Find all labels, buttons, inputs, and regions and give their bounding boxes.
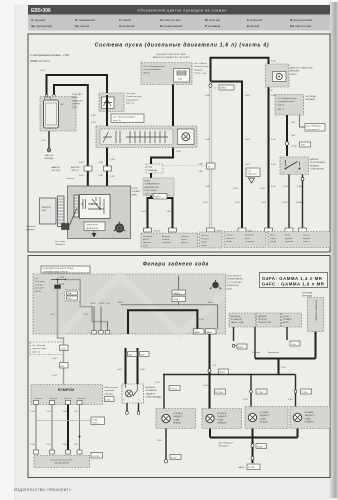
bus wire — [51, 279, 80, 281]
svg-text:0,5Ч: 0,5Ч — [245, 95, 250, 97]
svg-text:1,0Б: 1,0Б — [297, 186, 302, 188]
svg-text:0,5Ч: 0,5Ч — [202, 73, 207, 75]
svg-text:БЛОК РЕЛЕ И: БЛОК РЕЛЕ И — [227, 276, 242, 278]
svg-text:0,3Ч: 0,3Ч — [235, 202, 240, 204]
svg-text:АКПП: АКПП — [283, 321, 289, 324]
svg-text:В 77Б: В 77Б — [249, 467, 255, 469]
svg-text:0,5Ч: 0,5Ч — [157, 440, 162, 442]
lamp L3 label — [260, 411, 270, 424]
lamp3 ground wire — [252, 429, 254, 438]
stub wire B — [254, 327, 256, 359]
svg-text:И РЕЛЕ: И РЕЛЕ — [72, 104, 81, 106]
branch wire A — [93, 307, 95, 331]
immobilizer code note dashed — [146, 164, 163, 173]
diagram frame 2: reverse lamps — [28, 256, 330, 478]
lamp L1 — [162, 414, 170, 422]
connector EM61 — [209, 84, 212, 88]
lamp L4 — [293, 413, 301, 421]
svg-text:0,5Ч: 0,5Ч — [245, 139, 250, 141]
svg-text:ОБМЕНА: ОБМЕНА — [148, 169, 158, 172]
connector E46 label — [291, 142, 311, 148]
svg-text:блокир.: блокир. — [162, 239, 170, 241]
svg-text:0,5Ч: 0,5Ч — [176, 151, 181, 153]
engine variant note frame — [260, 273, 328, 288]
ECM note right — [105, 387, 119, 395]
svg-text:АКПП: АКПП — [143, 238, 149, 241]
svg-text:О оранжевый: О оранжевый — [75, 18, 95, 22]
svg-text:ДВИГАТЕЛЬ: ДВИГАТЕЛЬ — [86, 227, 99, 230]
svg-text:0,3Ч: 0,3Ч — [99, 162, 104, 164]
svg-text:ПОЛОЖ.: ПОЛОЖ. — [258, 319, 267, 321]
svg-text:НАВЕСН.: НАВЕСН. — [51, 166, 61, 169]
svg-text:0,3Ч: 0,3Ч — [79, 175, 84, 177]
clutch pedal switch symbol — [283, 160, 301, 174]
svg-text:Т 206: Т 206 — [302, 392, 308, 394]
svg-text:ФОНАРЬ: ФОНАРЬ — [217, 412, 227, 415]
svg-text:ТСМ: ТСМ — [93, 419, 98, 421]
underhood fuse box label — [72, 93, 83, 109]
clutch switch label — [310, 158, 325, 171]
svg-text:2,0Ч: 2,0Ч — [271, 95, 276, 97]
svg-text:Разъем: Разъем — [67, 178, 75, 180]
svg-text:З зеленый: З зеленый — [119, 24, 135, 28]
connector E46 — [286, 142, 289, 146]
starter relay inside ECU — [80, 195, 111, 219]
key reminder box on white wire — [198, 163, 215, 173]
svg-text:0,3П: 0,3П — [110, 176, 115, 178]
connector detail dashed box 3 — [224, 232, 266, 248]
svg-text:0,5Б: 0,5Б — [205, 95, 210, 97]
svg-text:Б белый: Б белый — [247, 24, 260, 28]
svg-text:ДИАГНОСТИЧЕСКИЙ: ДИАГНОСТИЧЕСКИЙ — [290, 67, 313, 70]
connector detail dashed box 4 — [268, 232, 330, 248]
MT wire top connectors — [128, 352, 150, 357]
relay block K1 dashed enclosure upper — [99, 93, 124, 112]
svg-text:РАЗЪЕМ: РАЗЪЕМ — [290, 70, 299, 73]
reverse lamp right hatch dashed box — [202, 409, 242, 429]
lamp1 ground wire — [165, 429, 167, 460]
connector EM61 label — [214, 85, 234, 90]
svg-text:ПЕДАЛИ: ПЕДАЛИ — [310, 164, 319, 167]
main fuse box dashed enclosure — [141, 63, 192, 85]
ECM feed wire — [58, 334, 64, 385]
svg-text:ЗВ1-О: ЗВ1-О — [278, 109, 285, 111]
left reference dashed box — [30, 342, 64, 355]
svg-text:0,4П: 0,4П — [50, 314, 55, 316]
svg-text:Т 106: Т 106 — [257, 392, 263, 394]
connector B148 — [251, 444, 266, 449]
svg-text:ЛЯТОР: ЛЯТОР — [71, 170, 79, 172]
svg-text:коробкой: коробкой — [105, 389, 115, 392]
svg-text:(диапаз.: (диапаз. — [143, 242, 152, 244]
wire labels 0,3Ч — [79, 162, 104, 177]
svg-text:Сигнал: Сигнал — [181, 236, 189, 238]
svg-text:ЗАРЯДКИ: ЗАРЯДКИ — [305, 98, 316, 101]
svg-text:Ж желтый: Ж желтый — [204, 18, 220, 22]
svg-text:Автоматич.: Автоматич. — [268, 351, 280, 354]
svg-text:К красный: К красный — [247, 18, 262, 22]
MT bottom connector 1 — [126, 411, 129, 414]
svg-text:(лист 3): (лист 3) — [113, 120, 121, 122]
svg-text:0,5Ч: 0,5Ч — [40, 70, 45, 72]
svg-text:замка: замка — [201, 242, 208, 244]
wire starter solenoid S — [54, 85, 88, 195]
svg-text:1,0Ч: 1,0Ч — [41, 140, 46, 142]
connector AA05 — [194, 329, 205, 334]
svg-text:Сигнал2: Сигнал2 — [77, 398, 86, 400]
svg-text:ХОДА: ХОДА — [173, 418, 180, 421]
lamp1 feed connector box — [155, 382, 180, 391]
transmission dashed box — [308, 298, 324, 332]
svg-text:ЗАДНЕГО: ЗАДНЕГО — [173, 415, 183, 418]
svg-text:2,0Ч: 2,0Ч — [271, 186, 276, 188]
svg-text:электропит.»: электропит.» — [307, 129, 321, 131]
svg-text:Блок: Блок — [285, 235, 290, 237]
power reference box — [305, 124, 325, 132]
svg-text:1,0Ч: 1,0Ч — [283, 186, 288, 188]
svg-text:См. «Распределение: См. «Распределение — [144, 66, 166, 68]
connector strip X2 — [74, 195, 79, 217]
svg-text:«Распред.: «Распред. — [35, 281, 46, 283]
svg-text:С202: С202 — [61, 348, 67, 350]
svg-text:0,3О: 0,3О — [47, 411, 52, 413]
svg-text:КОД: КОД — [148, 167, 153, 169]
transmission stub wire — [315, 332, 317, 359]
underhood label box — [41, 266, 90, 273]
charging system note — [305, 95, 316, 101]
svg-text:ФОНАРЬ: ФОНАРЬ — [260, 411, 270, 414]
node L2 — [209, 374, 211, 376]
power note — [35, 278, 46, 293]
svg-text:Соед.: Соед. — [291, 146, 297, 148]
svg-text:БЛОК: БЛОК — [145, 181, 152, 183]
reverse lamp left hatch dashed box — [156, 409, 196, 429]
svg-text:0,3П: 0,3П — [91, 122, 96, 124]
svg-text:0,5Ч: 0,5Ч — [260, 188, 265, 190]
svg-text:ФОНАРЬ: ФОНАРЬ — [305, 411, 315, 414]
svg-text:0,5Ч: 0,5Ч — [117, 369, 122, 371]
svg-text:Кч коричневый: Кч коричневый — [160, 24, 183, 28]
svg-text:0,5Ч: 0,5Ч — [281, 367, 286, 369]
speed sensor dashed enclosure — [34, 456, 90, 468]
fusible link stack — [172, 276, 186, 305]
connector detail dashed box 2 — [199, 232, 222, 248]
svg-text:Ф фиолетовый: Ф фиолетовый — [290, 18, 312, 22]
svg-text:УПРАВЛ.: УПРАВЛ. — [283, 318, 293, 321]
lamp3 feed wire — [250, 375, 252, 407]
svg-text:(лист 2): (лист 2) — [126, 103, 134, 105]
svg-text:G4FA: GAMMA 1,4 л MR: G4FA: GAMMA 1,4 л MR — [262, 276, 323, 281]
node L1 — [163, 374, 165, 376]
svg-text:заднего хода»: заднего хода» — [32, 348, 47, 350]
ECM output wire 2 — [51, 405, 53, 451]
svg-text:педали: педали — [303, 238, 311, 240]
wire branch to EM connector — [211, 82, 243, 229]
svg-text:0,5Ч: 0,5Ч — [288, 399, 293, 401]
junction node — [79, 436, 81, 438]
svg-text:(СМ.): (СМ.) — [72, 107, 78, 109]
connector C07 — [91, 453, 103, 459]
svg-text:питания»: питания» — [35, 288, 45, 290]
svg-text:ЗАЩИТА: ЗАЩИТА — [42, 206, 52, 209]
svg-text:Ч черный: Ч черный — [31, 18, 45, 22]
pin row labels — [153, 231, 253, 233]
wire labels right columns — [203, 188, 303, 204]
svg-text:В148: В148 — [257, 447, 263, 449]
wire clutch switch pin1 — [302, 175, 304, 229]
node S terminal — [53, 94, 56, 97]
pin row connectors — [144, 228, 307, 232]
svg-text:БЛОК: БЛОК — [283, 316, 290, 318]
gearbox note small — [302, 292, 313, 298]
diagram frame 1: starting system — [28, 34, 330, 252]
connector C115 — [105, 397, 115, 402]
svg-text:ВЫКЛЮЧ.: ВЫКЛЮЧ. — [146, 387, 157, 389]
sensor pin row — [34, 450, 83, 454]
svg-text:зажиг.: зажиг. — [201, 245, 207, 247]
svg-text:Сз светло-зел.: Сз светло-зел. — [160, 18, 182, 22]
wire clutch switch pin2 — [288, 175, 290, 229]
svg-text:и реле: и реле — [194, 73, 201, 75]
svg-text:ДАТЧИК: ДАТЧИК — [310, 158, 319, 161]
svg-text:0,5Ч: 0,5Ч — [243, 399, 248, 401]
svg-text:ЦАПФ: ЦАПФ — [238, 466, 245, 469]
svg-text:0,3Ч: 0,3Ч — [203, 202, 208, 204]
wire to clutch switch — [286, 115, 288, 156]
starter motor body — [44, 97, 59, 128]
wire down from junction — [217, 305, 219, 329]
starter relay body — [100, 129, 173, 145]
svg-text:ПОД КАПОТОМ: БЛОК СЛЕВ.: ПОД КАПОТОМ: БЛОК СЛЕВ. — [156, 53, 187, 56]
diagonal contact — [70, 208, 78, 225]
svg-text:СИСТЕМА: СИСТЕМА — [305, 95, 316, 98]
svg-text:(вход): (вход) — [270, 241, 276, 243]
svg-text:ЕМ61: ЕМ61 — [221, 88, 227, 90]
svg-text:Питание: Питание — [245, 235, 254, 237]
svg-text:ЛЕВЫЙ: ЛЕВЫЙ — [173, 422, 181, 425]
svg-text:стартера: стартера — [245, 241, 255, 243]
variant labels — [252, 351, 280, 354]
svg-text:сцепл.: сцепл. — [270, 238, 277, 240]
fuse holder box — [40, 198, 57, 224]
svg-text:ХОДА: ХОДА — [305, 417, 312, 420]
ground connector B77 — [238, 456, 260, 469]
lamp1 ground label box — [157, 440, 181, 460]
inhibitor switch dashed box C — [282, 313, 302, 327]
lamp L2 label — [217, 412, 227, 425]
svg-text:0,3Ч: 0,3Ч — [79, 162, 84, 164]
lamp4 ground wire — [297, 429, 299, 438]
ground bus wire — [210, 437, 298, 439]
ground reference box MD-2 — [246, 168, 260, 183]
svg-text:реле: реле — [245, 238, 251, 240]
svg-text:0,3О: 0,3О — [47, 444, 52, 446]
node J1 — [57, 279, 59, 281]
svg-text:Сигнал: Сигнал — [201, 235, 209, 237]
lamp2 ground wire — [209, 429, 211, 438]
lamp L4 label — [305, 411, 315, 424]
svg-text:ПОЛОЖЕНИЯ: ПОЛОЖЕНИЯ — [310, 162, 325, 164]
svg-text:2,0Ч: 2,0Ч — [271, 139, 276, 141]
variant note text — [30, 54, 69, 63]
svg-text:См. «Информ.: См. «Информ. — [307, 125, 322, 128]
junction box M66 on wire — [104, 166, 112, 171]
svg-text:УПРАВЛЕНИЯ: УПРАВЛЕНИЯ — [145, 183, 160, 186]
reverse lamp switch MT — [122, 384, 144, 403]
svg-text:См.: См. — [248, 170, 252, 172]
svg-text:С115: С115 — [93, 423, 99, 425]
svg-text:кузовом: кузовом — [285, 241, 294, 243]
svg-text:Е7 206: Е7 206 — [216, 392, 224, 394]
thick loop wire — [128, 310, 197, 334]
ground drop wire — [252, 438, 254, 464]
wire relay to ECU — [106, 95, 108, 195]
glow relay box — [102, 97, 115, 109]
header bar — [28, 5, 330, 15]
svg-text:ЭБУ: ЭБУ — [42, 210, 47, 212]
svg-text:(СМ.): (СМ.) — [227, 288, 233, 290]
svg-text:См. реле.: См. реле. — [126, 93, 136, 95]
svg-text:С электронными ключами – с: С электронными ключами – с ISO — [30, 54, 69, 57]
svg-text:В713: В713 — [220, 372, 226, 374]
lamp4 feed wire — [295, 375, 297, 407]
stub wire C — [286, 327, 288, 340]
svg-text:0,3С/О: 0,3С/О — [282, 202, 289, 204]
wire relay jog — [151, 147, 173, 198]
svg-text:ПОД КАПОТОМ: БЛОК ПРЕД-: ПОД КАПОТОМ: БЛОК ПРЕД- — [43, 267, 74, 270]
bridge label box — [153, 194, 167, 200]
wire labels row — [90, 303, 111, 305]
stub wire A — [233, 327, 235, 341]
svg-text:См. «Информация: См. «Информация — [278, 97, 298, 100]
link wire to key reminder — [163, 165, 211, 167]
svg-text:Обозначения цветов проводов на: Обозначения цветов проводов на схемах — [137, 9, 226, 13]
svg-text:040-4Д-13: 040-4Д-13 — [219, 446, 230, 448]
wagon note — [219, 443, 234, 448]
ECM output wire 1 — [35, 405, 37, 451]
svg-text:С101-Б: С101-Б — [153, 231, 161, 233]
starter relay K2 dashed enclosure — [96, 126, 197, 148]
lamp3 feed connector box — [250, 389, 267, 394]
svg-text:Св светло-син.: Св светло-син. — [290, 24, 312, 28]
svg-text:Сигнал+: Сигнал+ — [34, 398, 43, 400]
svg-text:0,5Б: 0,5Б — [198, 171, 203, 173]
connector E07 — [60, 363, 69, 369]
svg-text:(СМ. СХЕМУ: (СМ. СХЕМУ — [145, 190, 159, 192]
fuse F1 30A — [174, 69, 190, 83]
wire labels 0,3Ч bottom left — [141, 211, 171, 213]
svg-text:ЛИСТ 2): ЛИСТ 2) — [145, 193, 154, 195]
svg-text:4А15: 4А15 — [208, 301, 214, 304]
fuse holder label — [26, 225, 36, 231]
node relay box inlet — [106, 94, 109, 97]
svg-text:(ВФ-5): (ВФ-5) — [144, 71, 151, 74]
svg-text:«массы»: «массы» — [226, 238, 236, 240]
svg-text:АС: АС — [61, 103, 64, 106]
ground connector GD — [47, 148, 50, 152]
svg-text:ЭЛЕКТРОН.: ЭЛЕКТРОН. — [86, 225, 99, 227]
link wire MT/AT — [255, 358, 316, 360]
svg-text:блоки» распол.: блоки» распол. — [194, 66, 210, 68]
svg-text:0,5Ч: 0,5Ч — [140, 369, 145, 371]
svg-text:1,25Г: 1,25Г — [83, 314, 89, 316]
svg-text:двигат.: двигат. — [181, 242, 188, 244]
TCM link box — [91, 417, 105, 425]
interior junction wire — [121, 304, 218, 306]
svg-text:сцепл.: сцепл. — [303, 241, 310, 243]
wire labels feeds — [157, 385, 293, 401]
reverse lamp left wagon dashed box — [245, 407, 288, 429]
svg-text:передач: передач — [105, 393, 113, 395]
svg-text:электропитания»: электропитания» — [278, 101, 296, 103]
svg-text:1,25Ч: 1,25Ч — [59, 277, 65, 279]
wire labels row 2 — [31, 444, 80, 446]
battery junction wire — [211, 58, 269, 228]
svg-text:(ВФ-3): (ВФ-3) — [35, 290, 42, 293]
svg-text:См. в «Монт.: См. в «Монт. — [194, 63, 207, 65]
drop wire to bus — [278, 359, 280, 375]
svg-text:OBD-II: OBD-II — [290, 74, 297, 76]
lamp1 ground connector — [165, 459, 168, 463]
ECM output wire 4 — [79, 405, 81, 451]
svg-text:ФОНАРЬ: ФОНАРЬ — [173, 412, 183, 415]
fuse and relay box dashed enclosure — [33, 274, 226, 334]
svg-text:ЛЕВЫЙ: ЛЕВЫЙ — [260, 421, 268, 424]
svg-text:0,3Ч: 0,3Ч — [166, 211, 171, 213]
svg-text:Издательство «Монолит»: Издательство «Монолит» — [14, 487, 72, 492]
svg-text:0,3Ч: 0,3Ч — [141, 211, 146, 213]
glow relay symbol — [104, 99, 113, 106]
control unit box — [84, 222, 105, 231]
node B terminal — [45, 94, 48, 97]
svg-text:ФОНАРЕЙ: ФОНАРЕЙ — [231, 318, 242, 321]
OBD-II connector body — [273, 72, 287, 82]
fuse F33 — [55, 280, 61, 289]
svg-text:2,0Ч: 2,0Ч — [271, 164, 276, 166]
underhood label above fuse box — [152, 53, 190, 59]
svg-text:ВОДИТЕЛЯ: ВОДИТЕЛЯ — [227, 285, 239, 287]
driver side note — [227, 276, 244, 291]
svg-text:В 106: В 106 — [171, 458, 177, 460]
svg-text:ЗАДН.: ЗАДН. — [174, 292, 181, 295]
svg-text:ЗАДН. ХОДА: ЗАДН. ХОДА — [231, 321, 245, 324]
svg-text:ЭБУ автомат.: ЭБУ автомат. — [105, 387, 119, 389]
svg-text:1,0Ч: 1,0Ч — [52, 375, 57, 377]
svg-text:Р розовый: Р розовый — [205, 24, 221, 28]
legend band — [28, 15, 330, 31]
svg-text:Система пуска (дизельные двига: Система пуска (дизельные двигатели 1,6 л… — [95, 43, 269, 49]
connector strip X1 — [58, 196, 65, 227]
reverse lamp right wagon dashed box — [290, 407, 330, 429]
svg-text:0,3Ч: 0,3Ч — [91, 115, 96, 117]
svg-text:0,5Ч: 0,5Ч — [199, 319, 204, 321]
svg-text:С-3ч: С-3ч — [291, 344, 296, 346]
inhibitor switch dashed box A — [229, 313, 256, 327]
top margin — [0, 0, 338, 5]
ECU enclosure — [68, 186, 131, 239]
svg-text:1,0Ч: 1,0Ч — [291, 122, 296, 124]
extra wire labels — [110, 95, 302, 188]
svg-text:ЗАДНЕГО: ЗАДНЕГО — [217, 415, 227, 418]
svg-text:0,3Ч: 0,3Ч — [31, 444, 36, 446]
svg-text:БЛОК: БЛОК — [132, 188, 139, 190]
note right of fuse box — [194, 63, 210, 75]
svg-text:0,3Ч: 0,3Ч — [31, 411, 36, 413]
wire fuse to relay — [172, 85, 174, 148]
svg-text:Фонари заднего хода: Фонари заднего хода — [143, 262, 209, 268]
svg-text:ЗАДНЕГО: ЗАДНЕГО — [146, 392, 156, 395]
round connector C1 — [114, 222, 125, 233]
